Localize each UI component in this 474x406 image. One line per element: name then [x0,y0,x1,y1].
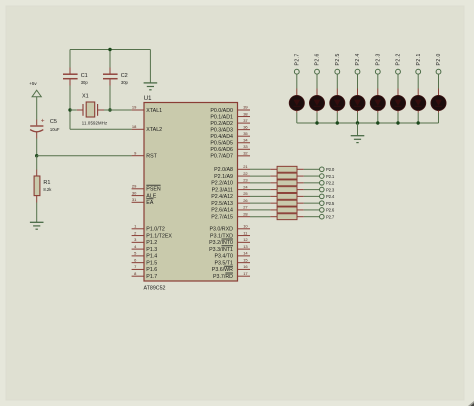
svg-text:P1.7: P1.7 [146,274,157,280]
svg-text:P3.6/WR: P3.6/WR [212,267,233,273]
svg-text:P0.3/AD3: P0.3/AD3 [210,127,233,133]
svg-text:P0.5/AD5: P0.5/AD5 [210,141,233,147]
U1 EA overline [146,198,153,200]
wire resistor to terminal P2.1 [304,175,320,177]
wire resistor to terminal P2.7 [304,216,320,218]
crystal X1 11.0592MHz [70,94,110,126]
wire LED D4 to rail [357,113,359,123]
wire resistor to terminal P2.4 [304,195,320,197]
node rail junction 5 [376,121,379,124]
terminal P2.0 [320,167,335,172]
wire LED D2 to rail [316,113,318,123]
U1 left pin labels [146,108,172,280]
U1 right pin stubs and numbers [238,105,251,276]
wire LED D6 to rail [397,113,399,123]
resistor (series P2.5) [270,200,304,206]
LED D2 (P2.6) [309,89,324,113]
ground LED rail [351,136,365,143]
wire C5 to RST node [36,139,38,156]
svg-text:PSEN: PSEN [146,187,161,193]
svg-text:P2.6/A14: P2.6/A14 [211,208,233,214]
wire terminal to LED D6 [397,74,399,88]
wire U1 P2.3 to resistor [250,189,270,191]
terminal P2.4 [320,194,335,199]
svg-text:26: 26 [243,198,248,203]
svg-text:21: 21 [243,164,248,169]
svg-text:16: 16 [243,264,248,269]
svg-text:10uF: 10uF [50,127,60,132]
svg-text:EA: EA [146,200,154,206]
svg-text:18: 18 [132,124,137,129]
svg-text:P0.4/AD4: P0.4/AD4 [210,134,233,140]
wire terminal to LED D4 [357,74,359,88]
svg-text:30p: 30p [121,80,129,85]
terminal P2.4 (LED column) [355,53,361,74]
svg-text:24: 24 [243,184,248,189]
svg-text:P2.7: P2.7 [295,53,301,65]
svg-text:10: 10 [243,224,248,229]
svg-text:14: 14 [243,251,248,256]
LED D8 (P2.0) [431,89,446,113]
svg-text:RST: RST [146,154,157,160]
node rail junction 3 [336,121,339,124]
node RST junction [35,154,38,157]
svg-text:P3.3/INT1: P3.3/INT1 [209,247,233,253]
wire terminal to LED D5 [377,74,379,88]
svg-text:8.2k: 8.2k [43,187,52,192]
resistor R1 8.2k [34,170,52,203]
svg-text:17: 17 [243,271,248,276]
LED D5 (P2.3) [370,89,385,113]
terminal P2.5 (LED column) [335,53,341,74]
svg-text:39: 39 [243,105,248,110]
wire LED D5 to rail [377,113,379,123]
svg-text:P2.2: P2.2 [326,181,335,186]
LED D6 (P2.2) [390,89,405,113]
svg-text:36: 36 [243,124,248,129]
wire R1 to ground [36,203,38,223]
svg-text:P2.4: P2.4 [355,53,361,65]
terminal P2.7 [320,214,335,219]
svg-text:25: 25 [243,191,248,196]
svg-text:P2.3: P2.3 [326,187,335,192]
wire XTAL2 [70,128,132,130]
svg-text:P2.5/A13: P2.5/A13 [211,201,233,207]
svg-text:P1.5: P1.5 [146,260,157,266]
ground top near U1 [144,83,158,90]
wire U1 P2.4 to resistor [250,195,270,197]
wire XTAL1 [110,109,132,111]
svg-text:P2.1/A9: P2.1/A9 [214,174,233,180]
resistor (series P2.3) [270,187,304,193]
svg-text:P1.2: P1.2 [146,240,157,246]
svg-text:P2.3: P2.3 [376,53,382,65]
svg-text:P1.1/T2EX: P1.1/T2EX [146,233,172,239]
capacitor C2 30p [103,68,129,86]
wire resistor to terminal P2.2 [304,182,320,184]
wire resistor to terminal P2.6 [304,209,320,211]
svg-text:P0.0/AD0: P0.0/AD0 [210,108,233,114]
svg-text:31: 31 [132,197,137,202]
resistor (series P2.2) [270,180,304,186]
terminal P2.2 [320,181,335,186]
wire terminal to LED D2 [316,74,318,88]
U1 INT0 INT1 WR RD overlines [222,239,234,273]
LED D4 (P2.4) [350,89,365,113]
svg-text:P2.0: P2.0 [326,167,335,172]
svg-text:P3.1/TXD: P3.1/TXD [210,233,233,239]
LED D3 (P2.5) [330,89,345,113]
svg-text:X1: X1 [82,94,89,100]
svg-text:29: 29 [132,184,137,189]
svg-text:P1.3: P1.3 [146,247,157,253]
IC U1 AT89C52 body [144,96,238,291]
svg-text:P2.6: P2.6 [315,53,321,65]
svg-text:12: 12 [243,237,248,242]
wire U1 P2.6 to resistor [250,209,270,211]
svg-text:27: 27 [243,205,248,210]
node crystal right [108,108,111,111]
resistor (series P2.7) [270,214,304,220]
wire LED common rail [297,122,439,124]
svg-text:P2.0: P2.0 [436,53,442,65]
svg-text:30: 30 [132,190,137,195]
wire node to R1 [36,156,38,170]
svg-text:28: 28 [243,211,248,216]
svg-text:R1: R1 [43,180,50,186]
svg-text:P0.2/AD2: P0.2/AD2 [210,121,233,127]
svg-text:P2.1: P2.1 [326,174,335,179]
wire resistor to terminal P2.0 [304,168,320,170]
resistor (series P2.4) [270,193,304,199]
terminal P2.2 (LED column) [396,53,402,74]
svg-text:32: 32 [243,151,248,156]
terminal P2.6 [320,208,335,213]
svg-text:37: 37 [243,118,248,123]
svg-text:P3.5/T1: P3.5/T1 [214,260,233,266]
U1 left pin stubs and numbers [132,105,144,276]
svg-text:30p: 30p [81,80,89,85]
svg-text:11.0592MHz: 11.0592MHz [82,121,108,126]
wire terminal to LED D8 [438,74,440,88]
wire terminal to LED D7 [417,74,419,88]
svg-text:13: 13 [243,244,248,249]
svg-text:P2.2/A10: P2.2/A10 [211,181,233,187]
svg-text:35: 35 [243,131,248,136]
wire resistor to terminal P2.3 [304,189,320,191]
svg-text:P2.0/A8: P2.0/A8 [214,167,233,173]
node rail junction 2 [315,121,318,124]
svg-text:19: 19 [132,105,137,110]
LED D7 (P2.1) [411,89,426,113]
wire LED D8 to rail [438,113,440,123]
svg-text:34: 34 [243,137,248,142]
svg-text:22: 22 [243,171,248,176]
ground below R1 [30,222,44,229]
terminal P2.5 [320,201,335,206]
wire LED D3 to rail [336,113,338,123]
wire U1 P2.0 to resistor [250,168,270,170]
U1 PSEN overline [146,184,160,186]
svg-text:P2.1: P2.1 [416,53,422,65]
wire top rail C1/C2 to ground [70,50,150,83]
node rail junction 4 [356,121,359,124]
node rail junction 7 [417,121,420,124]
svg-text:P2.5: P2.5 [326,201,335,206]
svg-text:+: + [41,118,45,125]
svg-text:33: 33 [243,144,248,149]
svg-text:P3.7/RD: P3.7/RD [213,274,233,280]
svg-text:23: 23 [243,178,248,183]
wire rail to ground [357,123,359,135]
wire LED D1 to rail [296,113,298,123]
resistor (series P2.0) [270,166,304,172]
terminal P2.6 (LED column) [315,53,321,74]
wire U1 P2.2 to resistor [250,182,270,184]
svg-text:P2.6: P2.6 [326,208,335,213]
wire +5V to C5 [36,97,38,120]
svg-text:38: 38 [243,111,248,116]
terminal P2.3 [320,187,335,192]
svg-text:P2.5: P2.5 [335,53,341,65]
wire RST node to U1 RST pin [37,155,132,157]
terminal P2.1 (LED column) [416,53,422,74]
svg-text:P2.7: P2.7 [326,214,335,219]
svg-text:15: 15 [243,257,248,262]
resistor (series P2.1) [270,173,304,179]
svg-text:P1.6: P1.6 [146,267,157,273]
svg-text:P2.2: P2.2 [396,53,402,65]
capacitor C5 10uF (polarized) [30,118,60,139]
node crystal left [68,108,71,111]
wire terminal to LED D3 [336,74,338,88]
svg-text:P2.7/A15: P2.7/A15 [211,214,233,220]
svg-text:P3.0/RXD: P3.0/RXD [209,227,233,233]
wire C2 down to XTAL1 branch [109,86,111,111]
node C2 top junction [108,48,111,51]
svg-text:+5v: +5v [29,81,37,86]
svg-text:P3.2/INT0: P3.2/INT0 [209,240,233,246]
wire U1 P2.7 to resistor [250,216,270,218]
svg-text:P1.4: P1.4 [146,254,157,260]
svg-text:AT89C52: AT89C52 [144,285,166,291]
window resize corner mark [468,401,474,406]
svg-text:XTAL1: XTAL1 [146,108,162,114]
svg-text:P2.3/A11: P2.3/A11 [212,187,233,193]
node rail junction 6 [396,121,399,124]
svg-text:P0.6/AD6: P0.6/AD6 [210,147,233,153]
terminal P2.7 (LED column) [294,53,300,74]
wire terminal to LED D1 [296,74,298,88]
terminal P2.0 (LED column) [436,53,442,74]
wire U1 P2.5 to resistor [250,202,270,204]
svg-text:P1.0/T2: P1.0/T2 [146,227,165,233]
svg-text:P3.4/T0: P3.4/T0 [214,254,233,260]
capacitor C1 30p [63,68,88,86]
power terminal +5V [29,81,41,97]
LED D1 (P2.7) [289,89,304,113]
terminal P2.3 (LED column) [375,53,381,74]
wire U1 P2.1 to resistor [250,175,270,177]
svg-text:C1: C1 [81,73,88,79]
terminal P2.1 [320,174,335,179]
svg-text:P2.4/A12: P2.4/A12 [211,194,233,200]
svg-text:XTAL2: XTAL2 [146,127,162,133]
svg-text:P0.1/AD1: P0.1/AD1 [210,114,233,120]
wire C1 down to XTAL2 branch [69,86,71,130]
wire LED D7 to rail [417,113,419,123]
resistor (series P2.6) [270,207,304,213]
wire resistor to terminal P2.5 [304,202,320,204]
svg-text:U1: U1 [144,96,152,102]
svg-text:P2.4: P2.4 [326,194,335,199]
U1 right pin labels [209,108,233,280]
svg-text:C2: C2 [121,73,128,79]
svg-text:P0.7/AD7: P0.7/AD7 [210,154,233,160]
svg-text:C5: C5 [50,119,57,125]
